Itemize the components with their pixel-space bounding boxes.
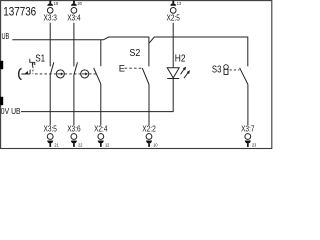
svg-text:19: 19	[54, 1, 59, 7]
svg-text:23: 23	[252, 143, 257, 149]
svg-text:S3: S3	[212, 64, 222, 75]
svg-text:0V UB: 0V UB	[1, 107, 21, 116]
svg-text:E: E	[119, 63, 125, 73]
svg-text:X3:5: X3:5	[44, 125, 58, 134]
svg-text:X2:2: X2:2	[142, 125, 156, 134]
svg-text:137736: 137736	[3, 4, 36, 18]
svg-text:X2:4: X2:4	[94, 125, 108, 134]
svg-text:13: 13	[177, 1, 182, 7]
svg-text:12: 12	[105, 143, 110, 149]
svg-text:X3:3: X3:3	[44, 14, 58, 23]
svg-text:X3:4: X3:4	[67, 14, 81, 23]
svg-text:10: 10	[153, 143, 158, 149]
svg-text:X2:5: X2:5	[167, 14, 181, 23]
svg-text:21: 21	[54, 143, 59, 149]
svg-text:S2: S2	[129, 48, 140, 59]
svg-text:S1: S1	[35, 54, 45, 65]
svg-text:X3:6: X3:6	[67, 125, 81, 134]
svg-text:X3:7: X3:7	[241, 125, 255, 134]
svg-text:20: 20	[78, 1, 83, 7]
svg-text:22: 22	[78, 143, 83, 149]
svg-text:H2: H2	[175, 54, 186, 65]
svg-text:UB: UB	[2, 32, 10, 41]
